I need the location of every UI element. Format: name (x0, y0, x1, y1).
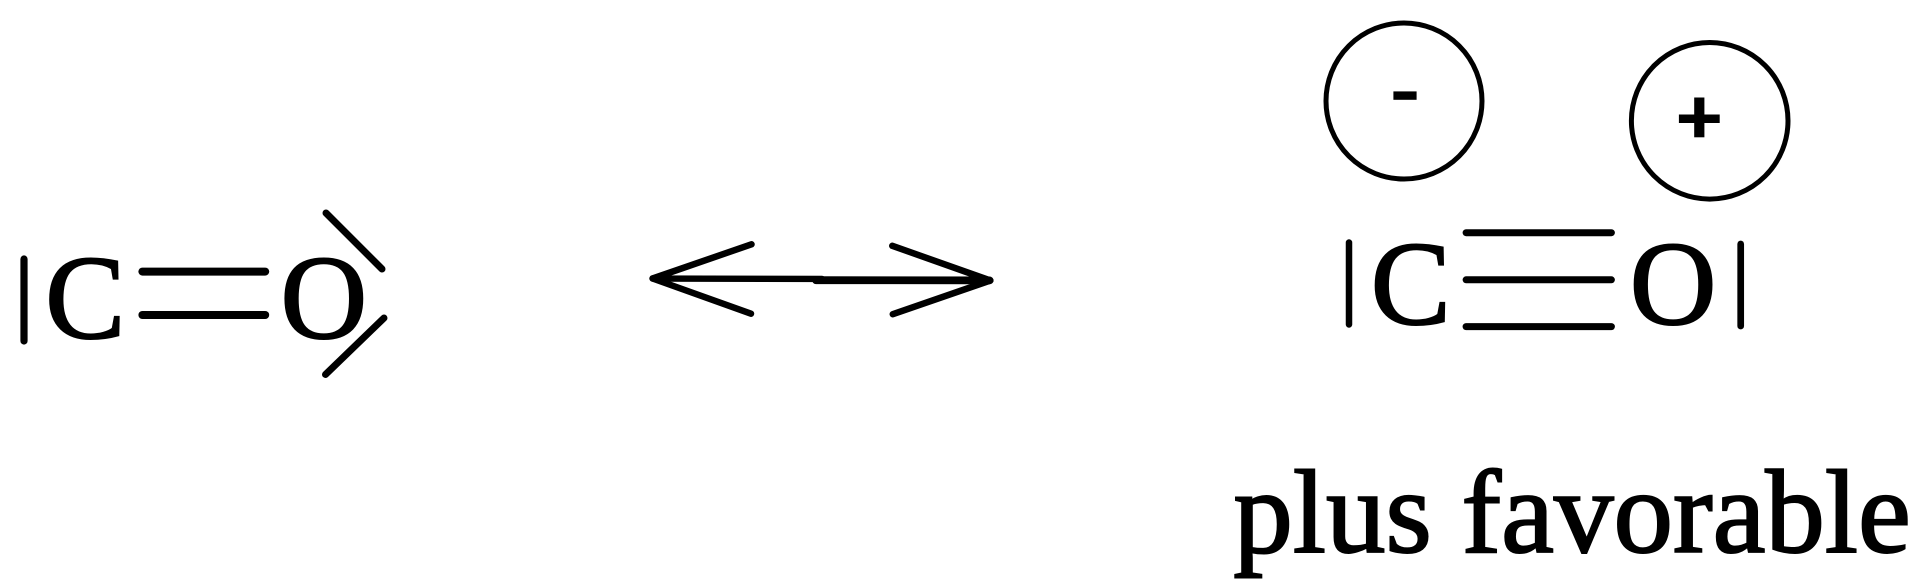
resonance arrow right head upper barb (892, 246, 990, 281)
right structure: lone pair bar on O (1737, 244, 1744, 326)
resonance arrow shaft right segment (816, 276, 990, 284)
left structure: double bond line 1 (142, 268, 265, 276)
positive formal charge circle (1631, 43, 1788, 200)
resonance arrow left head upper barb (653, 244, 752, 278)
resonance arrow shaft left segment (654, 275, 822, 282)
left structure: lower lone pair dash on O (326, 318, 385, 375)
right structure: triple bond line 1 (1466, 229, 1611, 236)
svg-text:C: C (1371, 217, 1451, 350)
right structure: triple bond line 2 (1466, 276, 1611, 283)
svg-text:C: C (45, 231, 125, 364)
right structure: lone pair bar on C (1346, 243, 1353, 325)
left structure: upper lone pair dash on O (326, 213, 382, 269)
resonance arrow left head lower barb (653, 279, 751, 314)
right structure: triple bond line 3 (1466, 323, 1611, 330)
left structure: lone pair bar on C (20, 259, 27, 341)
negative formal charge circle (1326, 23, 1482, 179)
plus sign horizontal bar (1679, 115, 1720, 124)
svg-text:O: O (1630, 217, 1717, 350)
left structure: double bond line 2 (142, 311, 265, 319)
svg-text:plus favorable: plus favorable (1233, 446, 1910, 578)
minus sign (1393, 91, 1416, 99)
resonance arrow right head lower barb (893, 281, 991, 315)
plus sign vertical bar (1694, 98, 1704, 138)
